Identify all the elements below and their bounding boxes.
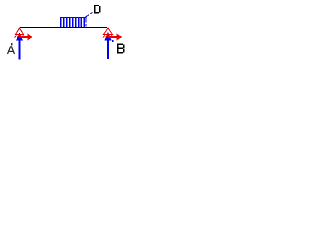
support B: red triangle xyxy=(104,28,113,35)
leader line to label D (blue dash-dot) xyxy=(86,13,93,18)
red horizontal reaction arrow at B xyxy=(108,34,122,41)
label B xyxy=(117,44,125,54)
leader dash to label A xyxy=(11,43,13,46)
beam xyxy=(20,27,107,28)
red horizontal reaction arrow at A xyxy=(20,34,33,41)
distributed load (hatched rectangle) xyxy=(60,17,86,27)
hatch ticks under support B xyxy=(103,35,112,37)
hatch ticks under support A xyxy=(15,35,24,37)
leader dash to label B xyxy=(112,40,114,42)
label A xyxy=(8,46,15,54)
blue vertical reaction arrow at B xyxy=(104,32,111,59)
blue vertical reaction arrow at A xyxy=(16,33,23,60)
support A: red triangle xyxy=(16,28,24,35)
label D xyxy=(94,5,101,14)
